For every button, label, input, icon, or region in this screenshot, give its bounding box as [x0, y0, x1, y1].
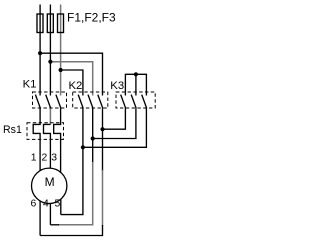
svg-text:6: 6: [31, 198, 37, 209]
svg-text:M: M: [45, 175, 55, 189]
svg-text:K1: K1: [23, 79, 37, 91]
svg-text:3: 3: [51, 153, 57, 164]
svg-text:5: 5: [55, 198, 61, 209]
svg-text:F1,F2,F3: F1,F2,F3: [67, 11, 116, 25]
svg-text:K3: K3: [110, 80, 124, 92]
svg-text:4: 4: [43, 198, 49, 209]
svg-text:1: 1: [31, 153, 37, 164]
svg-text:Rs1: Rs1: [3, 124, 22, 136]
svg-text:K2: K2: [69, 80, 83, 92]
svg-text:2: 2: [42, 153, 48, 164]
